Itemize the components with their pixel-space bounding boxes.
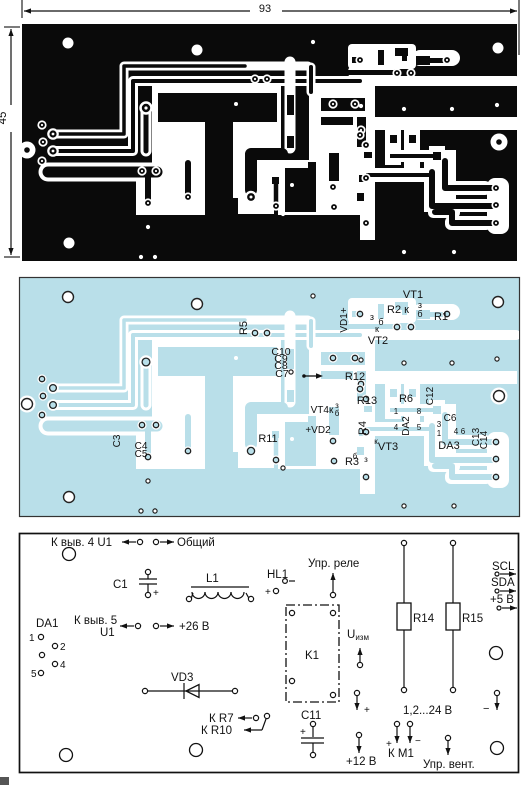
svg-text:−: − [415, 736, 421, 747]
svg-text:К M1: К M1 [388, 748, 414, 760]
svg-text:Общий: Общий [177, 537, 215, 549]
svg-text:+26 В: +26 В [179, 621, 210, 633]
svg-text:2: 2 [60, 642, 66, 653]
svg-text:C7: C7 [275, 368, 289, 380]
svg-text:б: б [417, 309, 422, 319]
svg-text:R2 к: R2 к [387, 304, 409, 316]
svg-text:Упр. реле: Упр. реле [308, 558, 359, 570]
svg-text:+: + [265, 587, 271, 598]
svg-text:C6: C6 [444, 413, 457, 424]
svg-text:К выв. 4 U1: К выв. 4 U1 [51, 537, 112, 549]
svg-text:DA2: DA2 [401, 416, 412, 436]
svg-text:4: 4 [454, 427, 459, 436]
svg-text:45: 45 [0, 112, 9, 125]
svg-text:к: к [375, 324, 379, 334]
svg-text:к: к [374, 437, 378, 446]
svg-text:R4: R4 [357, 421, 369, 435]
svg-text:DA3: DA3 [438, 440, 459, 452]
svg-text:SCL: SCL [492, 561, 515, 573]
svg-text:1: 1 [394, 407, 399, 416]
svg-text:C14: C14 [479, 430, 490, 449]
svg-text:VT4к: VT4к [311, 405, 334, 416]
svg-text:VT3: VT3 [378, 441, 398, 453]
svg-text:б: б [378, 317, 383, 327]
svg-text:R5: R5 [238, 321, 250, 335]
svg-text:VD1+: VD1+ [339, 307, 350, 332]
svg-text:8: 8 [417, 407, 422, 416]
svg-text:+12 В: +12 В [346, 756, 377, 768]
svg-text:C12: C12 [425, 386, 436, 405]
svg-text:Упр. вент.: Упр. вент. [423, 759, 475, 771]
svg-text:VD3: VD3 [171, 672, 193, 684]
svg-text:+VD2: +VD2 [305, 425, 331, 436]
svg-text:R14: R14 [413, 613, 435, 625]
svg-text:1,2...24 В: 1,2...24 В [403, 705, 453, 717]
svg-text:6: 6 [461, 427, 466, 436]
svg-text:SDA: SDA [491, 577, 515, 589]
svg-text:L1: L1 [206, 573, 219, 585]
svg-text:+: + [364, 705, 370, 716]
svg-text:U1: U1 [100, 627, 115, 639]
svg-text:C11: C11 [301, 710, 321, 722]
svg-text:4: 4 [394, 423, 399, 432]
svg-text:б: б [335, 409, 340, 418]
svg-text:з: з [370, 312, 374, 322]
svg-text:R12: R12 [345, 371, 365, 383]
svg-text:К R10: К R10 [201, 725, 232, 737]
svg-text:VT2: VT2 [368, 335, 388, 347]
svg-text:C5: C5 [135, 449, 148, 460]
svg-text:DA1: DA1 [36, 618, 58, 630]
svg-text:+: + [153, 588, 159, 599]
svg-text:R1: R1 [434, 311, 448, 323]
svg-text:R13: R13 [357, 395, 377, 407]
svg-text:1: 1 [437, 429, 442, 438]
svg-text:К выв. 5: К выв. 5 [74, 615, 117, 627]
svg-text:з: з [364, 455, 368, 464]
svg-text:93: 93 [259, 3, 271, 15]
svg-text:4: 4 [60, 660, 66, 671]
svg-text:+: + [300, 727, 306, 738]
svg-text:5: 5 [31, 669, 37, 680]
svg-text:K1: K1 [305, 650, 319, 662]
svg-text:R15: R15 [462, 613, 483, 625]
svg-text:3: 3 [437, 420, 442, 429]
svg-text:R6: R6 [399, 393, 413, 405]
svg-text:1: 1 [29, 633, 35, 644]
svg-text:−: − [483, 703, 489, 715]
svg-text:+5 В: +5 В [490, 594, 514, 606]
svg-text:R11: R11 [258, 433, 277, 445]
svg-text:5: 5 [417, 423, 422, 432]
svg-text:К R7: К R7 [209, 713, 234, 725]
svg-text:б: б [353, 452, 358, 461]
svg-text:C1: C1 [113, 579, 128, 591]
svg-text:C3: C3 [112, 434, 123, 447]
